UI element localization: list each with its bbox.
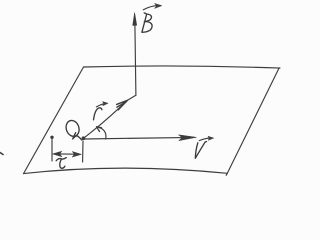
label V	[195, 142, 206, 159]
tau dimension arrow shaft	[57, 153, 77, 155]
arrow over V	[199, 138, 210, 141]
vector r arrowhead	[117, 100, 128, 110]
label r	[94, 108, 102, 120]
point Q dot (origin)	[82, 136, 86, 140]
scan speck at left edge	[0, 153, 3, 155]
label tau	[56, 158, 66, 169]
plane parallelogram left edge	[24, 67, 84, 174]
label Q	[64, 119, 81, 138]
vector B kink segment	[127, 95, 136, 100]
label B	[142, 13, 152, 32]
vector B arrowhead	[133, 13, 137, 26]
right tick	[82, 141, 84, 162]
plane parallelogram bottom edge	[24, 168, 228, 173]
left reference dot	[50, 136, 53, 139]
vector r shaft	[84, 100, 128, 138]
arrow over B	[143, 6, 160, 10]
arrow over r	[96, 104, 104, 107]
angle arc with arrowhead	[97, 127, 106, 139]
left tick	[51, 140, 53, 162]
plane parallelogram top edge	[84, 66, 281, 68]
plane parallelogram right edge	[226, 68, 279, 176]
tau dimension left arrowhead	[53, 151, 62, 156]
vector V arrowhead	[179, 135, 197, 141]
vector B shaft	[135, 24, 136, 95]
tau dimension right arrowhead	[72, 152, 81, 158]
vector V shaft	[84, 137, 193, 139]
